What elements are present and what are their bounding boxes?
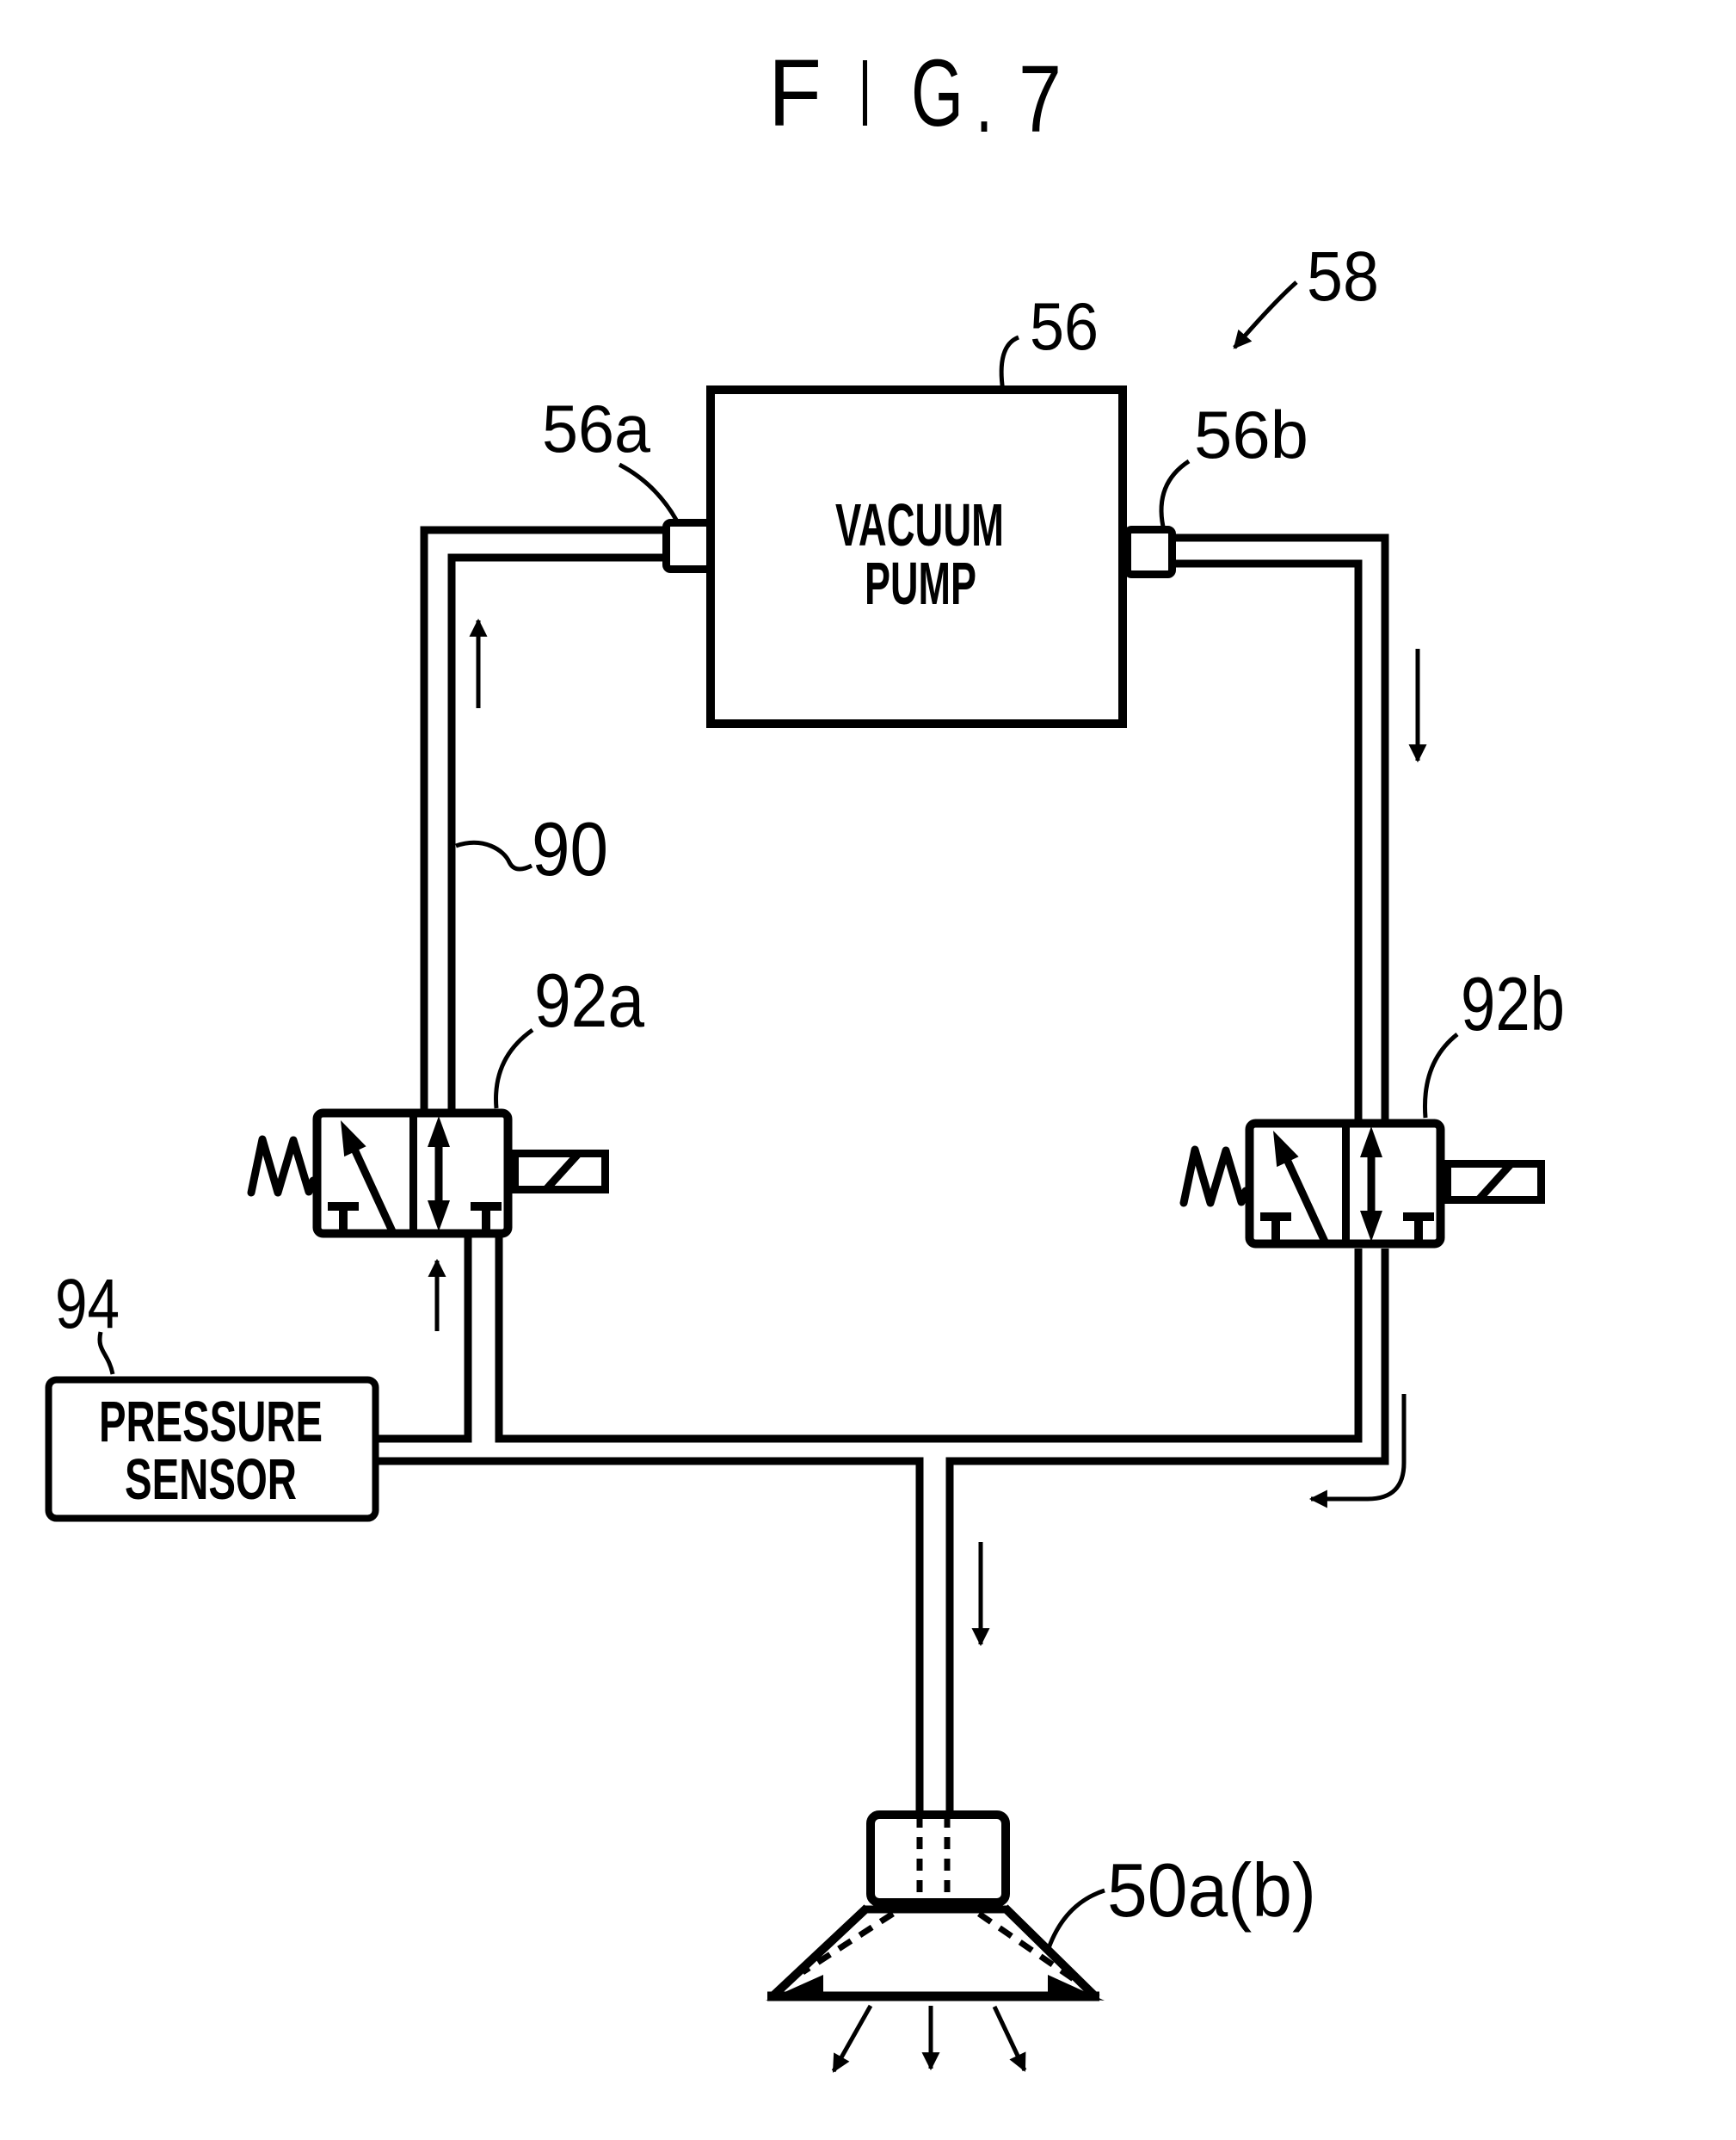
leader arrow 58 [1234, 282, 1296, 348]
valve 92a divider [409, 1113, 417, 1234]
wire main bottom line right part up to valve 92b [950, 1249, 1385, 1812]
suction cup corner wedge right [1048, 1975, 1105, 2001]
wire main bottom line with tee down to cup [376, 1461, 920, 1812]
valve 92b diagonal arrow [1284, 1154, 1326, 1243]
suction cup dashed slant right [979, 1914, 1074, 1979]
svg-text:SENSOR: SENSOR [125, 1447, 297, 1512]
wire left pipe inner line [452, 558, 666, 1112]
valve 92b solenoid [1448, 1164, 1542, 1200]
svg-text:90: 90 [532, 806, 608, 891]
spray arrow left below cup [834, 2006, 871, 2071]
valve 92a solenoid [515, 1154, 606, 1190]
leader 90 [456, 842, 532, 869]
flow arrow down below tee [979, 1542, 983, 1644]
leader 92a [496, 1030, 532, 1108]
suction cup trapezoid left slant [771, 1908, 867, 1998]
flow arrow curved left at right side [1311, 1394, 1404, 1499]
flow arrow down on right pipe [1416, 649, 1420, 761]
flow arrow up on left pipe [477, 620, 481, 708]
svg-text:92a: 92a [534, 958, 644, 1043]
valve 92a diagonal arrow [352, 1144, 393, 1233]
valve 92b right T symbol [1403, 1217, 1434, 1241]
suction cup block dashed line right [945, 1816, 951, 1903]
suction cup trapezoid right slant [1005, 1908, 1097, 1998]
suction cup trapezoid bottom edge [767, 1992, 1099, 2001]
wire right pipe inner line [1172, 564, 1358, 1122]
leader 56a [619, 465, 676, 520]
svg-text:7: 7 [1019, 46, 1062, 152]
vacuum pump box 56 [711, 390, 1123, 724]
valve 92b [1184, 1123, 1542, 1244]
valve 92b vertical double arrow [1368, 1151, 1376, 1219]
suction cup block [871, 1815, 1006, 1903]
port 56a [667, 523, 711, 570]
valve 92b body [1250, 1124, 1441, 1244]
wire right pipe outer line (port 56b to valve 92b) [1172, 538, 1385, 1122]
svg-text:56a: 56a [542, 391, 651, 466]
valve 92a spring [251, 1139, 313, 1193]
leader 50a(b) [1049, 1890, 1105, 1948]
svg-text:PRESSURE: PRESSURE [99, 1390, 323, 1454]
leader 56b [1161, 461, 1189, 527]
svg-text:56: 56 [1030, 288, 1099, 364]
spray arrow middle below cup [929, 2006, 933, 2069]
svg-text:F: F [768, 40, 822, 146]
leader 94 [100, 1332, 113, 1374]
spray arrow right below cup [994, 2007, 1025, 2070]
svg-text:94: 94 [55, 1265, 120, 1343]
suction cup block dashed line left [917, 1816, 923, 1903]
valve 92b divider [1342, 1123, 1350, 1244]
pressure sensor box 94 [49, 1380, 376, 1519]
leader 56 [1001, 337, 1019, 392]
port 56b [1128, 530, 1173, 575]
svg-text:I: I [859, 40, 871, 146]
svg-text:58: 58 [1307, 237, 1379, 316]
svg-text:50a(b): 50a(b) [1107, 1847, 1316, 1933]
valve 92b left T symbol [1260, 1217, 1291, 1241]
flow arrow up below valve 92a [435, 1261, 440, 1331]
valve 92a body [317, 1113, 508, 1234]
valve 92a [251, 1113, 606, 1234]
wire left pipe outer line (port 56a to valve 92a) [424, 530, 666, 1112]
suction cup dashed slant left [803, 1914, 893, 1972]
suction cup trapezoid top edge [863, 1906, 1008, 1914]
wire main top line (valve 92a bottom to valve 92b bottom) [499, 1236, 1358, 1439]
svg-text:92b: 92b [1461, 961, 1565, 1046]
svg-text:PUMP: PUMP [865, 550, 976, 617]
suction cup corner wedge left [766, 1975, 823, 2001]
svg-text:56b: 56b [1194, 397, 1308, 472]
svg-text:VACUUM: VACUUM [835, 491, 1004, 558]
wire sensor-to-valve-92a top line [376, 1236, 468, 1439]
valve 92a left T symbol [328, 1206, 359, 1230]
title FIG.7 [768, 40, 1062, 152]
valve 92a right T symbol [471, 1206, 502, 1230]
svg-text:G: G [911, 40, 963, 146]
valve 92b spring [1184, 1150, 1246, 1203]
valve 92a vertical double arrow [435, 1141, 443, 1209]
leader 92b [1425, 1034, 1457, 1118]
svg-text:.: . [976, 46, 993, 152]
